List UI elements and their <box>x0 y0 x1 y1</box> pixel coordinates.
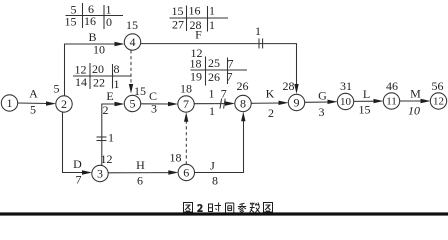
dummy arrow 4 to 5 (dashed, down) <box>129 50 133 93</box>
svg-text:46: 46 <box>386 79 398 93</box>
svg-text:20: 20 <box>92 62 104 76</box>
svg-text:15: 15 <box>65 15 77 29</box>
bottom border rule <box>0 212 448 215</box>
svg-text:16: 16 <box>189 4 201 18</box>
参 <box>238 203 246 213</box>
node 11 <box>383 93 399 109</box>
svg-text:H: H <box>136 158 145 172</box>
wire activity M (11 to 12) <box>400 87 431 118</box>
svg-text:2: 2 <box>61 97 67 111</box>
caption: 图 2 时间参数图 (drawn as strokes) <box>184 203 273 215</box>
svg-text:1: 1 <box>255 24 261 38</box>
svg-text:15: 15 <box>359 103 371 117</box>
wire activity K (8 to 9) <box>251 87 289 121</box>
svg-text:26: 26 <box>237 79 249 93</box>
间 <box>226 203 234 213</box>
node 9 <box>288 94 304 110</box>
table for activity E <box>73 62 131 91</box>
svg-text:10: 10 <box>408 104 420 118</box>
svg-text:1: 1 <box>7 96 13 110</box>
svg-text:56: 56 <box>432 79 444 93</box>
free-float tick on arrow 7-8 <box>220 99 225 109</box>
svg-text:3: 3 <box>151 102 157 116</box>
svg-text:8: 8 <box>240 97 246 111</box>
svg-text:A: A <box>29 87 38 101</box>
svg-text:1: 1 <box>209 18 215 32</box>
图 (1st) <box>184 203 193 213</box>
node 2 <box>56 96 72 112</box>
table for activity F <box>170 4 229 33</box>
svg-text:5: 5 <box>54 82 60 96</box>
svg-text:1: 1 <box>209 4 215 18</box>
svg-text:7: 7 <box>183 97 189 111</box>
free-float tick on E with value 1 <box>97 131 115 145</box>
wire arrow 7 to 8 <box>194 87 235 119</box>
svg-text:8: 8 <box>114 62 120 76</box>
svg-text:25: 25 <box>208 56 220 70</box>
wire activity A (1 to 2) <box>18 87 57 117</box>
svg-text:D: D <box>73 157 82 171</box>
node 4 <box>124 34 140 50</box>
svg-text:1: 1 <box>114 77 120 91</box>
图 (2nd) <box>264 203 273 213</box>
node 12 <box>430 93 446 109</box>
svg-text:15: 15 <box>126 18 138 32</box>
svg-text:28: 28 <box>283 79 295 93</box>
svg-text:5: 5 <box>130 97 136 111</box>
node 6 <box>178 164 194 180</box>
svg-text:K: K <box>266 87 275 101</box>
svg-text:10: 10 <box>340 96 352 108</box>
wire activity L (10 to 11) <box>354 87 384 117</box>
svg-text:9: 9 <box>294 96 300 110</box>
free-float tick on F with value 1 <box>255 24 263 49</box>
table for activity B (ES EF TF / LS LF FF) <box>65 2 124 29</box>
svg-text:4: 4 <box>130 35 136 49</box>
wire activity C (5 to 7) <box>141 89 179 116</box>
node 5 <box>124 95 140 111</box>
svg-text:3: 3 <box>97 167 103 181</box>
wire activity D (2 to 3, elbow down then right) <box>63 112 93 187</box>
svg-text:16: 16 <box>84 14 96 28</box>
node 7 <box>178 96 194 112</box>
数 <box>250 203 260 213</box>
dummy arrow 6 to 7 (dashed, up) <box>184 112 188 164</box>
svg-text:14: 14 <box>75 75 87 89</box>
svg-text:11: 11 <box>386 96 397 108</box>
svg-text:1: 1 <box>108 131 114 145</box>
wire activity B (2 to 4, elbow up then right) <box>65 30 125 96</box>
svg-text:15: 15 <box>134 84 146 98</box>
svg-text:0: 0 <box>106 15 112 29</box>
svg-text:J: J <box>210 159 215 173</box>
svg-text:31: 31 <box>340 79 352 93</box>
时 <box>209 203 222 212</box>
svg-text:26: 26 <box>208 70 220 84</box>
svg-text:F: F <box>195 28 202 42</box>
svg-text:2: 2 <box>103 103 109 117</box>
wire activity F (4 to 9, elbow right then down) <box>141 28 299 95</box>
node 3 <box>92 165 108 181</box>
svg-text:L: L <box>363 87 370 101</box>
svg-text:5: 5 <box>30 103 36 117</box>
svg-text:3: 3 <box>319 105 325 119</box>
svg-text:7: 7 <box>76 173 82 187</box>
svg-text:10: 10 <box>93 43 105 57</box>
wire activity H (3 to 6) <box>108 158 178 188</box>
svg-text:6: 6 <box>137 174 143 188</box>
svg-text:27: 27 <box>172 18 184 32</box>
svg-text:18: 18 <box>180 82 192 96</box>
svg-text:22: 22 <box>93 76 105 90</box>
svg-text:18: 18 <box>170 151 182 165</box>
svg-text:1: 1 <box>209 104 215 118</box>
svg-text:18: 18 <box>190 57 202 71</box>
svg-text:12: 12 <box>433 96 444 108</box>
svg-text:8: 8 <box>212 174 218 188</box>
svg-text:M: M <box>410 87 421 101</box>
svg-text:E: E <box>106 89 113 103</box>
node 1 <box>1 95 17 111</box>
svg-text:G: G <box>318 89 327 103</box>
svg-text:7: 7 <box>221 87 227 101</box>
wire activity J (6 to 8, elbow right then up) <box>194 112 245 188</box>
node 8 <box>235 95 251 111</box>
node 10 <box>337 93 353 109</box>
wire activity E (3 to 5, elbow up then right) <box>102 89 125 165</box>
svg-text:6: 6 <box>183 166 189 180</box>
svg-text:2: 2 <box>268 106 274 120</box>
wire activity G (9 to 10) <box>305 89 338 120</box>
svg-text:15: 15 <box>172 4 184 18</box>
table for activity G (with 12 above) <box>190 46 248 86</box>
svg-text:1: 1 <box>209 87 215 101</box>
svg-text:7: 7 <box>228 57 234 71</box>
